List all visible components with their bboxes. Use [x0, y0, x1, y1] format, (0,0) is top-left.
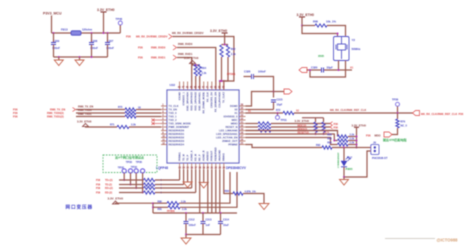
resistor R74 + wire TXD0 — [76, 112, 125, 114]
wire LED_ACT row — [246, 138, 338, 145]
wire bottom pin 14 drop — [183, 170, 185, 185]
svg-text:TP36: TP36 — [392, 98, 399, 102]
wire PFBIN rail — [153, 212, 237, 214]
svg-text:100nF: 100nF — [258, 69, 266, 73]
svg-text:P0805: P0805 — [346, 168, 354, 171]
wire osc power — [301, 17, 303, 26]
svg-text:IOVDD33_0: IOVDD33_0 — [224, 115, 239, 119]
svg-text:IOVDD33_1: IOVDD33_1 — [182, 91, 185, 105]
no-connect stub TXD_3 — [153, 123, 161, 125]
svg-text:TXD_1: TXD_1 — [169, 115, 178, 119]
ground (right) — [79, 57, 81, 60]
svg-text:C313: C313 — [206, 219, 213, 222]
ground (caps) — [185, 235, 187, 239]
net TD-(2) wire + termination resistor — [119, 184, 144, 186]
wire LED_SPEED row — [246, 134, 338, 141]
svg-text:R82: R82 — [316, 144, 321, 147]
net RD+(2) wire + termination resistor — [119, 187, 144, 189]
wire RMII_REF_CLK line — [294, 112, 413, 114]
svg-text:PFBOUT: PFBOUT — [211, 150, 214, 161]
resistor R69 4.7k — [315, 118, 317, 122]
svg-text:3.3V_ETH0: 3.3V_ETH0 — [210, 29, 227, 33]
svg-text:DP83848CVV: DP83848CVV — [226, 166, 247, 170]
resistor R76 NC — [397, 113, 399, 119]
svg-text:2.2k: 2.2k — [350, 137, 355, 140]
svg-text:R84: R84 — [327, 137, 332, 140]
svg-text:R73: R73 — [118, 106, 123, 109]
wire bottom pin 13 drop — [179, 170, 181, 181]
svg-text:RMII_TXD0(2): RMII_TXD0(2) — [47, 111, 64, 115]
svg-text:RMII_RXD0: RMII_RXD0 — [178, 42, 193, 46]
resistor R64 2.2k — [194, 65, 197, 77]
svg-text:网口变压器: 网口变压器 — [66, 203, 93, 210]
svg-text:PHC0528-ST: PHC0528-ST — [372, 156, 388, 160]
svg-text:RXD_0/PHYAD1: RXD_0/PHYAD1 — [199, 91, 202, 110]
svg-text:R62: R62 — [231, 48, 236, 51]
svg-text:10k_1%: 10k_1% — [326, 20, 336, 24]
svg-text:R76: R76 — [401, 120, 406, 123]
resistor R75 + wire TXD1 — [76, 116, 125, 118]
svg-text:P36: P36 — [96, 187, 101, 190]
ground (AGND pin 19) — [203, 170, 205, 183]
svg-text:TP46: TP46 — [116, 17, 123, 21]
svg-text:P36: P36 — [334, 126, 339, 129]
wire RESET row + resistor — [246, 130, 259, 132]
svg-text:3.3V_ETH0: 3.3V_ETH0 — [77, 119, 92, 123]
svg-text:COL/PHYAD0: COL/PHYAD0 — [219, 91, 222, 107]
svg-text:R72: R72 — [276, 109, 281, 112]
svg-text:X1: X1 — [234, 111, 238, 115]
svg-text:AVDD33: AVDD33 — [207, 151, 210, 161]
svg-text:RESERVED: RESERVED — [215, 147, 218, 161]
svg-text:RD+(2): RD+(2) — [105, 187, 113, 190]
svg-text:15pF: 15pF — [277, 103, 283, 106]
svg-text:P3V3_MCU: P3V3_MCU — [43, 12, 62, 16]
svg-text:R66: R66 — [313, 20, 318, 24]
svg-text:X2: X2 — [234, 108, 238, 112]
svg-text:RESERVED0: RESERVED0 — [169, 129, 185, 133]
svg-text:TD+(2): TD+(2) — [105, 179, 113, 182]
wire RBIAS to ground — [243, 194, 264, 204]
wire pullup pair2 to pins — [195, 76, 197, 90]
svg-text:R83: R83 — [327, 133, 332, 136]
wire pullup pair1 to pins — [221, 57, 223, 81]
svg-text:2.2k: 2.2k — [181, 200, 186, 203]
svg-text:MII_RX_CLK/RMII_REF_CLK: MII_RX_CLK/RMII_REF_CLK — [330, 108, 366, 112]
svg-text:P36: P36 — [13, 108, 18, 112]
svg-text:50MHz: 50MHz — [352, 47, 361, 51]
svg-text:FB13: FB13 — [61, 28, 68, 32]
port (right, small) — [284, 89, 292, 94]
svg-text:P36: P36 — [13, 115, 18, 119]
svg-text:RMII_TXD0: RMII_TXD0 — [78, 108, 92, 112]
wire LED power rail — [356, 127, 358, 147]
wire pin 20 drop to rail — [207, 170, 209, 214]
svg-text:3.3V_ETH0: 3.3V_ETH0 — [352, 123, 367, 127]
svg-text:RMII_TXD1(2): RMII_TXD1(2) — [47, 115, 64, 119]
no-connect stub TXD_2 — [153, 119, 161, 121]
svg-text:RESERVED1: RESERVED1 — [169, 132, 185, 136]
IC top pins — [179, 82, 181, 91]
resistor R70 4.7k — [323, 118, 325, 122]
svg-text:LED_LINK/AN0: LED_LINK/AN0 — [219, 129, 238, 133]
svg-text:ANAGND: ANAGND — [219, 150, 222, 161]
svg-text:RX_ER/MDIX_EN: RX_ER/MDIX_EN — [215, 92, 218, 112]
wire pullup rail 2 — [193, 64, 200, 66]
svg-text:Y2: Y2 — [352, 38, 356, 42]
svg-text:R64: R64 — [202, 67, 207, 70]
resistor R65 2.2k — [198, 65, 201, 77]
svg-text:C326: C326 — [244, 69, 251, 73]
wire MDIO row + resistor — [246, 126, 259, 128]
svg-text:3.3V_ETH0: 3.3V_ETH0 — [108, 197, 124, 201]
LED D17 — [343, 148, 345, 162]
oscillator Y2 50MHz — [334, 37, 350, 61]
watermark — [385, 238, 435, 239]
resistor R82 (25MHz out) — [246, 145, 323, 148]
svg-text:RD_M: RD_M — [194, 154, 197, 161]
svg-text:P36: P36 — [366, 133, 371, 137]
wire caps bottom rail — [186, 234, 221, 236]
ground (LED) — [343, 177, 345, 180]
IC left pins — [161, 105, 167, 107]
wire bottom rail — [54, 56, 108, 58]
svg-text:33pF: 33pF — [327, 66, 334, 70]
svg-text:P36: P36 — [96, 179, 101, 182]
svg-text:TXD_2: TXD_2 — [169, 118, 178, 122]
wire CRSDV row — [173, 37, 234, 91]
svg-text:2.2k: 2.2k — [202, 72, 207, 75]
wire MDC row + resistor — [246, 123, 259, 125]
resistor R73 + wire TX_EN — [76, 109, 125, 111]
svg-text:AGND_A: AGND_A — [190, 150, 193, 161]
svg-text:CYM8D56N66T: CYM8D56N66T — [338, 152, 340, 168]
svg-text:X1: X1 — [350, 66, 354, 70]
junction dots on rail — [53, 32, 55, 34]
wire main 3.3V rail — [52, 32, 72, 34]
svg-text:PWR_DOWN/INT: PWR_DOWN/INT — [169, 125, 190, 129]
svg-text:AGND_B: AGND_B — [203, 150, 206, 161]
svg-text:RXD_1/PHYAD2: RXD_1/PHYAD2 — [194, 91, 197, 110]
svg-text:MDC: MDC — [232, 118, 238, 122]
svg-text:NC_0: NC_0 — [401, 125, 408, 128]
svg-text:R71: R71 — [110, 124, 115, 127]
wire J9 pin2 to ground line — [344, 151, 371, 177]
svg-text:就近47R匹配电阻: 就近47R匹配电阻 — [383, 137, 407, 142]
svg-text:P36: P36 — [459, 112, 464, 116]
wires TP to TD/RD rows — [123, 173, 125, 180]
svg-text:RMII_TX_EN: RMII_TX_EN — [78, 105, 93, 109]
port MII_RX_CLK/RMII_REF_CLK (right) — [413, 111, 420, 116]
svg-text:X505: X505 — [318, 54, 325, 58]
svg-text:C312: C312 — [189, 219, 196, 222]
svg-text:RD-(2): RD-(2) — [105, 192, 112, 195]
wire 3.3V_ETH0 down — [103, 12, 105, 33]
svg-text:RX_CLK: RX_CLK — [207, 92, 210, 102]
svg-text:RESERVED4: RESERVED4 — [169, 143, 185, 147]
svg-text:RMII_TX_EN: RMII_TX_EN — [50, 108, 65, 112]
wire J9 pin1 — [367, 147, 371, 149]
svg-text:P36: P36 — [13, 111, 18, 115]
svg-text:C320: C320 — [311, 66, 318, 70]
svg-text:TP35: TP35 — [136, 160, 143, 164]
svg-text:RXD_2/PHYAD3: RXD_2/PHYAD3 — [190, 91, 193, 110]
svg-text:P36: P36 — [96, 192, 101, 195]
svg-text:R85: R85 — [327, 141, 332, 144]
wire RXD1 row — [177, 58, 192, 91]
wire pin 18 drop to rail — [199, 170, 201, 214]
IC bottom pins — [179, 163, 181, 170]
svg-text:RBIAS: RBIAS — [223, 153, 226, 161]
ground (AGND pin 15) — [187, 170, 189, 183]
svg-text:CRS/CRS_DV: CRS/CRS_DV — [211, 92, 214, 108]
svg-text:TP31: TP31 — [281, 118, 288, 122]
wire osc enable — [302, 26, 338, 37]
svg-text:RMII_RXD0: RMII_RXD0 — [151, 45, 166, 49]
wire P3V3_MCU down — [51, 16, 53, 34]
svg-text:U32: U32 — [170, 83, 176, 87]
svg-text:MII_RX_CLK/RMII_REF_CLK: MII_RX_CLK/RMII_REF_CLK — [421, 112, 457, 116]
test point TP31 — [277, 112, 279, 114]
svg-text:R81: R81 — [158, 208, 163, 211]
svg-text:25MHZ_OUT: 25MHZ_OUT — [222, 139, 238, 143]
wire pullup rail 1 — [224, 33, 226, 45]
svg-text:3.3V_ETH0: 3.3V_ETH0 — [97, 8, 115, 12]
svg-text:1nF: 1nF — [206, 224, 211, 227]
svg-text:LQFP48: LQFP48 — [156, 166, 168, 170]
resistor R86 4.87k_1% (RBIAS) — [224, 170, 233, 194]
svg-text:P36: P36 — [138, 45, 143, 49]
svg-text:3.3V_ETH0: 3.3V_ETH0 — [297, 13, 315, 17]
svg-text:C314: C314 — [223, 219, 230, 222]
svg-text:RESET_N: RESET_N — [226, 125, 238, 129]
svg-text:MDO: MDO — [375, 133, 381, 137]
wire MDO — [357, 147, 368, 149]
svg-text:TP33: TP33 — [126, 160, 133, 164]
wire bottom pin 17 drop — [195, 170, 197, 193]
wire TP46 to rail — [119, 25, 121, 33]
svg-text:LED_ACT/AN_EN: LED_ACT/AN_EN — [216, 136, 238, 140]
svg-text:RD_P: RD_P — [199, 154, 202, 161]
svg-text:RXD_3/PHYAD4: RXD_3/PHYAD4 — [186, 91, 189, 110]
svg-text:这4个网口信号测试点: 这4个网口信号测试点 — [115, 155, 144, 160]
svg-text:2.2k: 2.2k — [350, 141, 355, 144]
svg-text:PFBIN1: PFBIN1 — [178, 152, 181, 162]
wire R76 to MDO line — [392, 128, 398, 135]
svg-text:TXD_0: TXD_0 — [169, 111, 178, 115]
svg-text:RX_DV/MII_MODE: RX_DV/MII_MODE — [203, 92, 206, 114]
port X1 (osc out) — [299, 68, 307, 73]
svg-text:RESERVED3: RESERVED3 — [169, 139, 185, 143]
svg-text:TD_P: TD_P — [186, 154, 189, 161]
svg-text:TXD_3/SNI_MODE: TXD_3/SNI_MODE — [169, 122, 192, 126]
port MDC right — [330, 122, 333, 126]
wire DGND pin to gnd-rail — [246, 92, 285, 107]
wire X2 pin — [246, 109, 274, 111]
resistor R63 2.2k — [226, 45, 229, 57]
svg-text:C315: C315 — [277, 98, 284, 101]
wire osc output — [324, 61, 339, 71]
svg-text:FFSM1: FFSM1 — [227, 72, 236, 76]
svg-text:MDIO: MDIO — [231, 122, 238, 126]
svg-text:100nF: 100nF — [189, 224, 197, 227]
wire pin 23 drop to rail — [219, 170, 221, 214]
svg-text:RESERVED2: RESERVED2 — [169, 136, 185, 140]
svg-text:P36: P36 — [126, 34, 131, 38]
svg-text:10uF: 10uF — [223, 224, 229, 227]
svg-text:2.2k: 2.2k — [350, 133, 355, 136]
svg-text:TD_M: TD_M — [182, 154, 185, 161]
wire pin 22 drop to rail — [215, 170, 217, 214]
svg-text:3.3V_ETH0: 3.3V_ETH0 — [184, 56, 199, 60]
wire bottom pin 16 drop — [191, 170, 193, 189]
svg-text:RMII_TXD1: RMII_TXD1 — [78, 112, 92, 116]
svg-text:TX_CLK: TX_CLK — [169, 104, 179, 108]
port MDIO right — [330, 125, 333, 129]
svg-text:TX_CLK2: TX_CLK2 — [223, 91, 226, 103]
svg-text:R86: R86 — [225, 190, 230, 193]
svg-text:2.2k: 2.2k — [131, 124, 136, 127]
wire RXD0 row — [177, 48, 216, 91]
svg-text:P36: P36 — [138, 55, 143, 59]
wire pin 21 drop to rail — [211, 170, 213, 214]
IC right pins — [239, 105, 246, 107]
svg-text:120ohm: 120ohm — [82, 28, 93, 32]
note box (test points) — [103, 155, 157, 173]
svg-text:PFBIN2: PFBIN2 — [228, 143, 238, 147]
svg-text:2.2k: 2.2k — [231, 53, 236, 56]
ground (left) — [58, 57, 60, 60]
svg-text:RMII_RXD1: RMII_RXD1 — [151, 55, 166, 59]
net RD-(2) wire + termination resistor — [119, 192, 144, 194]
svg-text:D17: D17 — [348, 156, 353, 159]
IC U32 DP83848CVV body — [167, 90, 239, 163]
svg-text:IOGND: IOGND — [178, 92, 181, 100]
wire 3.3V bottom feed — [116, 203, 154, 213]
resistor R71 2.2k on PWR_DOWN — [86, 126, 118, 129]
net TD+(2) wire + termination resistor — [119, 179, 144, 181]
svg-text:2.2k: 2.2k — [182, 208, 187, 211]
wire D17 to ground — [343, 167, 345, 177]
svg-text:MII_RX_DV/RMII_CRSDV: MII_RX_DV/RMII_CRSDV — [172, 31, 204, 35]
svg-text:MII_RX_DV/RMII_CRSDV: MII_RX_DV/RMII_CRSDV — [136, 34, 168, 38]
ground (RBIAS) — [259, 204, 269, 210]
svg-text:TX_EN: TX_EN — [169, 108, 177, 112]
svg-text:DGND: DGND — [230, 104, 238, 108]
resistor R62 2.2k — [220, 45, 223, 57]
svg-text:LED_SPEED/AN1: LED_SPEED/AN1 — [216, 132, 238, 136]
svg-text:3.3V_ETH0: 3.3V_ETH0 — [295, 119, 310, 123]
wire LED_LINK row — [246, 131, 338, 137]
svg-text:@ICTO988: @ICTO988 — [437, 237, 459, 242]
